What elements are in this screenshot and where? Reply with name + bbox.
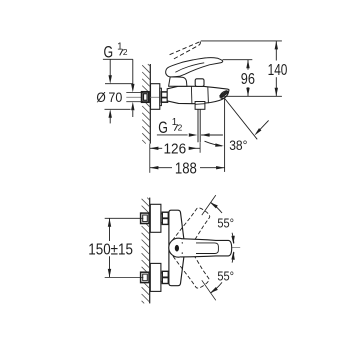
cartridge dome (side view) [169, 77, 187, 86]
dimension 188 line [150, 167, 172, 169]
upper s-union (plan) [161, 214, 163, 223]
lever dome dots (plan) [182, 242, 183, 243]
lever arm solid (plan) [181, 239, 232, 257]
lower s-union (plan) [161, 273, 163, 282]
spout reference line [220, 95, 282, 97]
lever inner line (side view) [175, 63, 204, 72]
svg-text:2: 2 [178, 123, 183, 133]
svg-text:Ø: Ø [96, 90, 105, 106]
150 extension line upper [105, 217, 144, 219]
dimension 150 arrows [108, 218, 111, 227]
G1/2 label underline and leader [157, 134, 188, 136]
svg-text:126: 126 [164, 141, 187, 158]
lever top extension line [223, 59, 253, 61]
lever dome dark oval (plan) [175, 245, 179, 252]
55 deg lower extension line [202, 280, 216, 300]
55 deg upper arc [211, 203, 222, 213]
wall hatching (side view) [148, 64, 150, 66]
faucet body (plan view) [169, 210, 184, 286]
dimension 140 arrows [275, 41, 278, 50]
38-degree arc arrow right [258, 120, 268, 131]
supply nut G1/2 in wall (side view) [142, 92, 149, 102]
svg-text:140: 140 [268, 62, 288, 79]
lower hex nut (plan) [162, 271, 168, 283]
spout tip vertical extension line [224, 99, 226, 172]
lowered lever dashed (plan, -55deg) [172, 244, 209, 288]
dimension 96 arrows [246, 60, 249, 68]
38-degree sloped line [225, 98, 258, 139]
spout aerator ring [219, 89, 230, 99]
upper escutcheon (plan) [150, 204, 161, 232]
55 deg upper extension line [202, 195, 216, 215]
pipe extension line [199, 143, 201, 153]
body joint line right [207, 87, 210, 103]
svg-text:55°: 55° [217, 216, 234, 231]
wall nut extension lines [126, 91, 141, 93]
upper supply nut (plan) [141, 213, 149, 223]
wall extension line below (dim 126/188) [149, 144, 151, 173]
raised lever dashed (plan, +55deg) [172, 208, 210, 251]
dimension 188 arrows [150, 166, 159, 169]
spout aerator (dark) [220, 91, 229, 98]
raised lever dashed outline (side view) [170, 42, 201, 55]
G1/2 leader arrow (wall nut) [132, 59, 134, 84]
union hex nut (side view) [161, 92, 167, 102]
G1/2 top underline [103, 58, 133, 60]
diameter 70 arrows [109, 75, 112, 84]
lever dome circle (plan) [169, 238, 188, 257]
lever centerline (plan) [205, 247, 240, 249]
faucet axis centerline (side view) [126, 96, 168, 98]
faucet body and spout (side view) [167, 86, 229, 104]
s-union body (side view) [160, 88, 162, 105]
wall section line (side view) [149, 64, 151, 144]
svg-text:55°: 55° [217, 269, 234, 284]
150 extension line lower [105, 276, 144, 278]
dimension 140 line [275, 41, 277, 61]
upper hex nut (plan) [162, 212, 168, 224]
55 deg lower arc [211, 282, 222, 292]
dimension 126 arrows [150, 147, 159, 150]
lower escutcheon (plan) [150, 263, 161, 291]
escutcheon extension lines [105, 83, 133, 85]
lower supply nut (plan) [141, 272, 149, 282]
diverter knob (side view) [195, 79, 204, 87]
lever grip inner line (plan) [196, 243, 218, 254]
wall section line (plan view) [149, 198, 151, 304]
svg-text:188: 188 [175, 161, 197, 178]
svg-text:2: 2 [123, 47, 128, 57]
svg-text:96: 96 [241, 71, 255, 88]
svg-text:70: 70 [108, 89, 122, 105]
body joint line left [190, 86, 193, 103]
shower pipe collar [195, 102, 205, 110]
svg-text:150±15: 150±15 [88, 241, 133, 258]
svg-text:G: G [158, 119, 168, 137]
lever handle (side view) [166, 58, 223, 77]
shower outlet pipe [197, 109, 199, 142]
top reference line (raised lever) [201, 40, 282, 42]
dimension 126 line [150, 147, 162, 149]
dimension 150 line [109, 218, 111, 241]
svg-text:38°: 38° [229, 138, 247, 153]
38-degree arc arrow left [205, 141, 223, 146]
wall hatching (plan view) [147, 198, 149, 200]
escutcheon flange (side view) [151, 84, 160, 110]
dimension 96 line [247, 60, 249, 70]
55 deg upper arc arrows [210, 202, 218, 208]
55 deg lower arc arrows [210, 287, 218, 293]
